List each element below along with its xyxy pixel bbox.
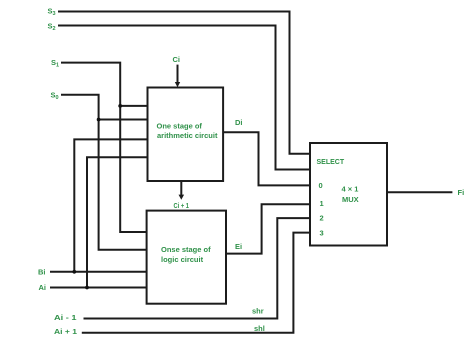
svg-text:arithmetic circuit: arithmetic circuit xyxy=(157,131,218,140)
svg-text:SELECT: SELECT xyxy=(317,159,345,166)
junction dot S1 xyxy=(118,104,122,108)
svg-text:Onse stage of: Onse stage of xyxy=(161,245,211,254)
svg-text:1: 1 xyxy=(320,199,324,208)
svg-text:4 × 1: 4 × 1 xyxy=(342,185,359,194)
wire Ci input arrow shaft xyxy=(177,65,179,83)
svg-text:Ai - 1: Ai - 1 xyxy=(54,313,77,322)
arrowhead Ci+1 xyxy=(179,195,185,200)
svg-text:Ai: Ai xyxy=(39,283,47,292)
wire shr (Ai-1) net xyxy=(84,218,311,318)
block: 4x1 MUX xyxy=(310,143,387,246)
block: one stage of logic circuit xyxy=(147,211,226,304)
svg-text:Ei: Ei xyxy=(235,242,242,251)
wire Bi branch to arithmetic xyxy=(74,139,147,271)
svg-text:2: 2 xyxy=(320,214,324,223)
wire S0 branch to arithmetic xyxy=(99,119,148,121)
wire Fi output xyxy=(387,191,452,193)
svg-text:shr: shr xyxy=(252,307,264,316)
svg-text:MUX: MUX xyxy=(342,195,359,204)
svg-text:Ci + 1: Ci + 1 xyxy=(174,201,190,210)
wire S1 branch to arithmetic xyxy=(120,105,147,107)
svg-text:Bi: Bi xyxy=(38,268,46,277)
svg-text:Fi: Fi xyxy=(458,188,465,197)
junction dot S0 xyxy=(97,118,101,122)
svg-text:Di: Di xyxy=(235,118,243,127)
junction dot Ai xyxy=(85,286,89,290)
wire Ci+1 arrow shaft xyxy=(180,181,182,196)
svg-text:3: 3 xyxy=(320,229,324,238)
svg-text:Ci: Ci xyxy=(173,55,181,64)
svg-text:shl: shl xyxy=(254,324,265,333)
svg-text:Ai + 1: Ai + 1 xyxy=(54,327,77,336)
wire S3 net xyxy=(58,12,310,154)
wire S0 net xyxy=(61,95,147,250)
svg-text:One stage of: One stage of xyxy=(157,121,203,130)
wire Ei net xyxy=(226,204,310,253)
wire Di net xyxy=(223,132,310,185)
wire S2 net xyxy=(58,26,310,170)
svg-text:logic circuit: logic circuit xyxy=(161,255,204,264)
wire Ai net xyxy=(50,287,147,289)
svg-text:0: 0 xyxy=(319,181,323,190)
wire shl (Ai+1) net xyxy=(82,233,310,333)
wire Bi net xyxy=(50,271,147,273)
block: one stage of arithmetic circuit xyxy=(148,88,224,182)
wire S1 net xyxy=(61,63,147,232)
arrowhead Ci xyxy=(175,82,180,87)
junction dot Bi xyxy=(72,270,76,274)
wire Ai branch to arithmetic xyxy=(87,157,148,287)
